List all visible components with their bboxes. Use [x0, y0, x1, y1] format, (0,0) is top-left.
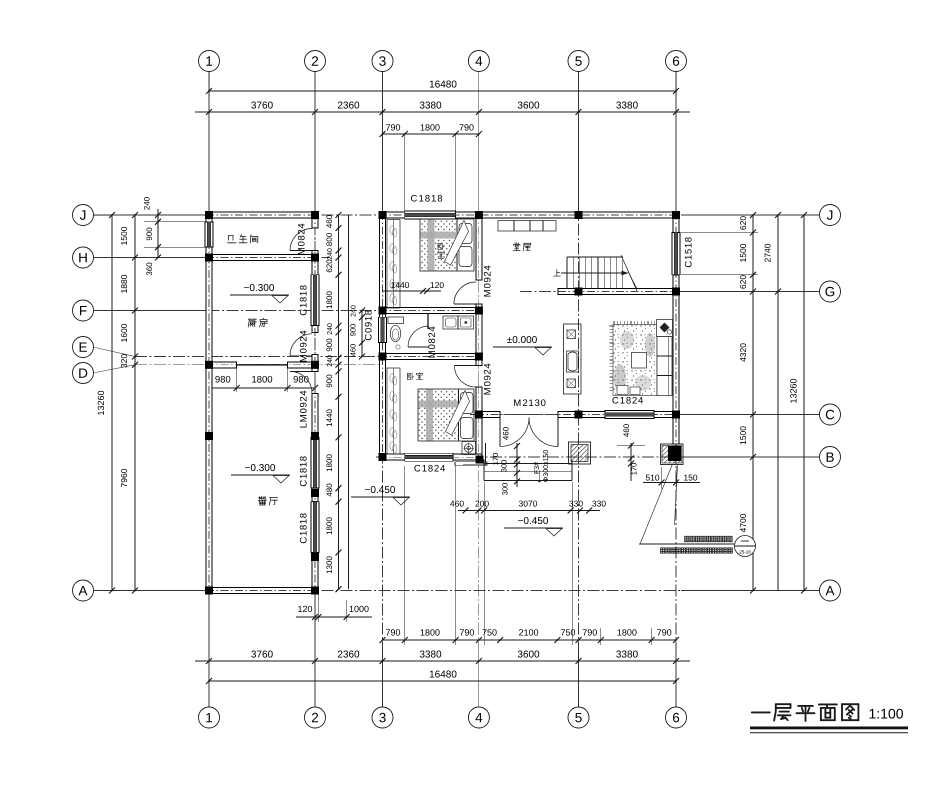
wall row C east segment: [654, 412, 679, 418]
bedroom2 wardrobe: [387, 368, 400, 454]
column at (479,356): [475, 353, 483, 361]
label C0918 bathroom2: [365, 310, 372, 340]
title scale 1:100: [870, 709, 903, 719]
side step SE of bedroom2: [455, 461, 487, 463]
hall cabinet against J wall: [498, 221, 556, 232]
column at (315,590): [311, 587, 319, 595]
window C1824 living row C wall: [605, 411, 654, 419]
grid row line A: [94, 590, 820, 592]
label C1818 dining lower: [300, 513, 307, 543]
wall row J center west of window: [380, 212, 405, 218]
bathroom2 door M0824 arc: [408, 326, 429, 347]
label M0924 bedroom1: [484, 266, 491, 297]
wall row B bedroom2 south west segment: [380, 454, 405, 460]
label F3# drain: [534, 462, 539, 473]
window C1518 grid6 wall: [672, 233, 680, 275]
dim 980/1800/980 below D wall: [209, 387, 315, 389]
wall grid2 segment below kitchen window: [312, 326, 318, 333]
window C0915 grid1 wall: [205, 222, 213, 247]
wall grid1 west facade upper: [206, 212, 212, 222]
label M0924 bedroom2: [484, 364, 491, 395]
dim row top 3760/2360/3380/3600/3380: [195, 111, 690, 113]
dim 120/1000 below dining: [296, 616, 372, 618]
L trim around grid4/B column: [485, 443, 487, 465]
grid bubble B right: [820, 447, 841, 468]
grid bubble 5 bottom: [568, 707, 589, 728]
wall grid6 segment window to B column: [673, 275, 679, 444]
note text line1: [685, 536, 689, 541]
grid bubble 2 bottom: [305, 707, 326, 728]
wall grid2 segment door to window C1818 kitchen: [312, 251, 318, 275]
column at (676,215): [672, 211, 680, 219]
grid bubble 3 bottom: [372, 707, 393, 728]
grid bubble J right: [820, 205, 841, 226]
grid bubble A left: [73, 580, 94, 601]
grid row line G: [520, 291, 820, 293]
column at (315,436): [311, 432, 319, 440]
dim mini chain 240/900/460 at grid3: [361, 311, 363, 357]
stair flight: [567, 256, 623, 258]
coffee table on rug: [632, 353, 647, 369]
note text line2: [661, 548, 665, 553]
title underline thick: [750, 727, 908, 730]
window C0918 grid3 wall: [379, 317, 387, 342]
dim 460 left of M2130: [516, 443, 518, 487]
toilet bathroom2: [388, 317, 404, 324]
wall row H kitchen north: [206, 255, 318, 261]
wall grid1 west facade lower: [206, 247, 212, 593]
title 一层平面图: [752, 704, 859, 721]
grid bubble C right: [820, 404, 841, 425]
column at (209,258): [205, 254, 213, 262]
door M0924 bedroom2 arc and leaf: [454, 366, 476, 388]
dim row bottom segments 790..790: [383, 639, 677, 641]
column at (382,310): [379, 307, 387, 315]
grid bubble 5 top: [568, 51, 589, 72]
label C1824 living: [612, 397, 643, 404]
column at (382,215): [379, 211, 387, 219]
wall row G stair landing: [558, 289, 679, 295]
dim 13260 left: [111, 215, 113, 591]
label C1518 stairwell: [685, 237, 692, 267]
grid column line 1: [208, 72, 210, 708]
bedroom1 bed: [420, 219, 474, 271]
column at (676,292): [672, 288, 680, 296]
stair label 上: [554, 269, 561, 276]
room label hall 堂屋: [513, 243, 530, 251]
title underline thin: [750, 732, 908, 734]
column at (480,460): [476, 456, 484, 464]
wall grid2 pier between dining windows: [312, 488, 318, 502]
bedroom1 label 卧室: [438, 243, 444, 258]
wall grid2 segment to A: [312, 553, 318, 594]
grid bubble F left: [73, 300, 94, 321]
door M0824 bathroom1 arc: [290, 229, 312, 251]
decor column grid5/B hatched: [569, 442, 591, 464]
extension lines bottom dims: [404, 466, 406, 645]
window C1818 kitchen grid2 wall: [311, 275, 319, 326]
dim row top 790/1800/790 grid3-4: [383, 133, 479, 135]
grid bubble 1 bottom: [199, 707, 220, 728]
bedroom2 bed: [418, 389, 474, 441]
label C1824 bedroom2: [414, 465, 445, 472]
wall grid4 segment door2 to B: [476, 387, 482, 462]
sofa right side: [657, 337, 672, 396]
dim overall 16480 bottom: [209, 680, 676, 682]
decor column grid6/B hatched with black core: [661, 444, 684, 465]
grid column line 3: [382, 72, 384, 708]
column at (676,414): [672, 411, 680, 419]
column at (209,436): [205, 432, 213, 440]
grid bubble 6 bottom: [666, 707, 687, 728]
wall row J left wing: [206, 212, 318, 218]
entrance steps below M2130: [483, 460, 485, 481]
wall row D dining north, segment east: [287, 362, 318, 368]
dim chain left 1500/1880/1600/320/7960: [134, 215, 136, 591]
basin counter bathroom2: [443, 316, 474, 329]
grid bubble D left: [73, 363, 94, 384]
threshold line in D wall opening: [237, 364, 288, 366]
grid bubble 1 top: [199, 51, 220, 72]
leader lines to note: [640, 464, 673, 544]
grid bubble G right: [820, 281, 841, 302]
level -0.300 kitchen: [244, 284, 274, 291]
label M0824 bathroom2: [428, 327, 435, 358]
wall row F bedroom1 south: [380, 308, 482, 314]
grid row line F: [94, 310, 483, 312]
grid row line J: [94, 214, 820, 216]
dim chain right 620/1500/620/4320/1500/4700: [752, 215, 754, 591]
wall grid3 upper bedroom1 west: [380, 212, 386, 317]
side stools bottom of rug: [617, 386, 628, 395]
dim row bottom 3760/2360/3380/3600/3380: [195, 660, 690, 662]
room label kitchen 厨房: [248, 318, 267, 327]
column at (315,215): [311, 211, 319, 219]
dim row 460/200/3070/330/330: [458, 510, 600, 512]
grid bubble J left: [73, 205, 94, 226]
grid column line 4: [478, 72, 480, 708]
grid bubble 4 top: [468, 51, 489, 72]
window C1824 bedroom2 south wall: [405, 453, 453, 461]
label M0824 bathroom1: [298, 224, 305, 255]
dim overall 16480 top: [209, 90, 676, 92]
bathroom2 partition wall stub: [427, 314, 429, 330]
rug fringe top: [613, 321, 615, 325]
door M0924 bedroom1 arc and leaf: [454, 282, 476, 304]
wall grid2 segment E-D junction: [312, 355, 318, 372]
dim mini chain 240/900/360 left top: [157, 209, 159, 258]
window C1818 extension lines top: [404, 134, 406, 211]
wall row J center east of window: [456, 212, 679, 218]
grid bubble 3 top: [372, 51, 393, 72]
label M2130 entrance: [514, 399, 545, 406]
door LM0924 dining arc: [290, 371, 312, 393]
rug shading blobs: [614, 364, 626, 392]
grid row line D: [93, 365, 135, 373]
column at (315,557): [311, 553, 319, 561]
stair up arrow: [561, 272, 627, 274]
rug fringe left: [609, 325, 613, 327]
wall row B bedroom2 south east segment: [453, 454, 482, 460]
column at (578,215): [575, 211, 583, 219]
wall grid3 lower bedroom2 west: [380, 343, 386, 460]
column at (382,356): [379, 353, 387, 361]
level -0.450 below entrance: [518, 517, 548, 524]
floor drain box SE bedroom2: [462, 442, 476, 455]
column at (315,258): [311, 254, 319, 262]
grid bubble 2 top: [305, 51, 326, 72]
wall row A dining south: [206, 588, 318, 594]
label LM0924 dining: [300, 391, 307, 428]
wall grid4 segment J to bedroom1 door: [476, 212, 482, 280]
level -0.450 right of dining: [365, 486, 395, 493]
column at (209,365): [205, 361, 213, 369]
wall grid6 segment J to window C1518: [673, 212, 679, 233]
sofa corner table top right: [657, 320, 673, 337]
dim chain right of left wing 460..1300: [338, 215, 340, 589]
column at (209,590): [205, 587, 213, 595]
grid bubble E left: [73, 337, 94, 358]
grid row line H: [94, 257, 331, 259]
column at (578,414): [575, 411, 583, 419]
label C1818 kitchen: [300, 285, 307, 315]
column at (479,215): [475, 211, 483, 219]
wall row C middle segment: [558, 412, 605, 418]
level ±0.000 hall: [507, 336, 537, 343]
door M0924 kitchen arc: [290, 334, 312, 356]
level -0.300 dining: [245, 464, 275, 471]
room label bathroom1 卫生间: [228, 235, 258, 243]
label M0924 kitchen: [300, 331, 307, 362]
grid column line 6: [675, 72, 677, 708]
grid bubble H left: [73, 247, 94, 268]
column at (479,310): [475, 307, 483, 315]
solid leader segments near bubbles: [208, 72, 210, 212]
grid row line E: [93, 347, 135, 357]
wall centerlines overlay: [206, 214, 318, 216]
window C1818 bedroom1 top wall: [405, 211, 456, 219]
TV cabinet: [564, 324, 582, 394]
label Φ300x150: [543, 450, 548, 482]
wall grid2 segment below dining door: [312, 393, 318, 437]
stair break line: [621, 255, 637, 291]
dim 460 right near grid6: [630, 443, 632, 481]
wall grid2 segment J to door: [312, 212, 318, 228]
bedroom1 wardrobe: [387, 220, 400, 309]
dim 2740 right: [777, 215, 779, 591]
detail reference circle: [735, 536, 756, 557]
grid column line 5: [578, 72, 580, 708]
column at (578,292): [575, 288, 583, 296]
dim 13260 right: [803, 215, 805, 591]
door M2130 double leaf arcs: [500, 418, 529, 447]
grid row line C: [470, 414, 820, 416]
window C1818 dining lower: [311, 502, 319, 553]
dim 1440/120 bedroom1: [383, 290, 442, 292]
label C1818 bedroom1: [411, 195, 442, 202]
column at (315,365): [311, 361, 319, 369]
room label dining 餐厅: [258, 497, 277, 505]
grid column line 2: [314, 72, 316, 708]
wall row D dining north, segment west: [206, 362, 237, 368]
wall grid4 segment between doors: [476, 304, 482, 366]
grid bubble A right: [820, 580, 841, 601]
wall row E bedroom2 north: [380, 354, 482, 360]
grid row line B: [376, 456, 820, 458]
label C1818 dining upper: [300, 456, 307, 486]
column at (209,215): [205, 211, 213, 219]
wall row C west segment with M2130 jamb: [476, 412, 500, 418]
grid bubble 6 top: [666, 51, 687, 72]
column at (315,493): [311, 489, 319, 497]
dim 510/150 below B column: [643, 482, 700, 484]
living room rug with speckles: [613, 325, 657, 396]
column at (382,457): [379, 453, 387, 461]
bedroom2 label 卧室: [408, 373, 423, 380]
window C1818 dining upper: [311, 437, 319, 488]
column at (479,414): [475, 411, 483, 419]
grid bubble 4 bottom: [468, 707, 489, 728]
